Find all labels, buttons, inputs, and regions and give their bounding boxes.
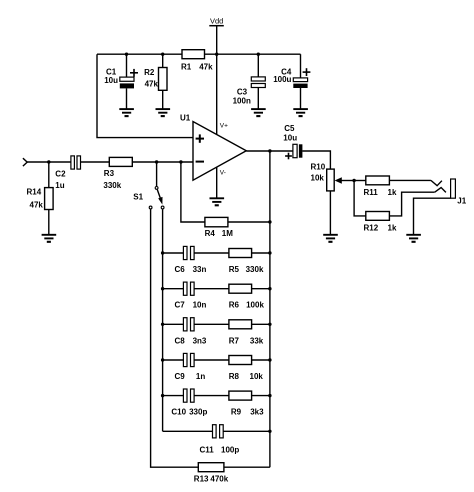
resistor R1 (181, 50, 213, 72)
resistor R5 (229, 249, 264, 275)
wire C5 to R10 top (302, 151, 330, 169)
resistor R2 (144, 54, 167, 108)
svg-text:1k: 1k (388, 223, 397, 232)
svg-text:R12: R12 (364, 223, 379, 232)
svg-text:C9: C9 (175, 372, 186, 381)
node left rail row2 (161, 287, 164, 290)
wire R13 to right rail (224, 466, 270, 468)
wire row2 mid (194, 288, 229, 290)
wire inverting input to R4 (181, 162, 205, 222)
svg-text:C3: C3 (237, 87, 248, 96)
wire row4 left (163, 359, 184, 361)
svg-text:R10: R10 (311, 163, 326, 172)
svg-text:C5: C5 (284, 124, 295, 133)
wire wiper down to R12 (354, 181, 366, 216)
wire row3 mid (194, 323, 229, 325)
wire row2 left (163, 288, 184, 290)
svg-text:100u: 100u (273, 75, 291, 84)
svg-text:10u: 10u (283, 134, 297, 143)
node right rail row4 (268, 358, 271, 361)
resistor R8 (229, 356, 264, 382)
svg-text:R3: R3 (104, 169, 115, 178)
svg-text:33n: 33n (193, 265, 207, 274)
resistor R3 (103, 157, 132, 190)
ground (R10) (323, 235, 338, 242)
node right rail row5 (268, 394, 271, 397)
ground (C1) (119, 109, 134, 116)
power Vdd terminal (209, 17, 224, 135)
svg-text:C8: C8 (175, 336, 186, 345)
wire row1 left (163, 252, 184, 254)
capacitor C5 (283, 124, 302, 159)
wire wiper to R11 (354, 180, 366, 182)
capacitor C1 (104, 54, 138, 108)
svg-text:U1: U1 (180, 113, 191, 122)
node R4/right rail junction (268, 220, 271, 223)
wire S1 left throw rail (151, 209, 199, 467)
svg-text:47k: 47k (145, 80, 159, 89)
svg-text:R9: R9 (231, 408, 242, 417)
svg-text:R6: R6 (229, 301, 240, 310)
input terminal arrow (23, 158, 27, 166)
svg-text:330k: 330k (103, 181, 121, 190)
wire row2 right (252, 288, 270, 290)
capacitor C9 (175, 353, 206, 381)
svg-text:R1: R1 (181, 62, 192, 71)
resistor R12 (364, 212, 397, 233)
svg-text:100k: 100k (246, 301, 264, 310)
svg-text:1M: 1M (222, 229, 233, 238)
svg-text:10n: 10n (193, 301, 207, 310)
node output/right rail junction (268, 149, 271, 152)
wire U1 output to C5 (246, 150, 292, 152)
svg-text:C10: C10 (171, 408, 186, 417)
wire bias network drop to non-inverting input (97, 54, 193, 137)
capacitor C6 (175, 246, 207, 274)
resistor R9 (229, 391, 264, 417)
resistor R7 (229, 320, 264, 346)
node left rail row4 (161, 358, 164, 361)
ground (R2) (156, 109, 171, 116)
wire R12 to J1 ring (389, 192, 434, 216)
svg-text:3n3: 3n3 (193, 336, 207, 345)
wire row1 mid (194, 252, 229, 254)
node right rail row1 (268, 251, 271, 254)
capacitor C2 (55, 156, 80, 190)
capacitor C3 (233, 54, 266, 108)
node right rail row2 (268, 287, 271, 290)
node left rail row3 (161, 323, 164, 326)
wire row4 right (252, 359, 270, 361)
node left rail row1 (161, 251, 164, 254)
wire R11 to J1 tip (389, 179, 431, 181)
wire input line to C2 (27, 161, 70, 163)
svg-text:Vdd: Vdd (210, 17, 223, 26)
wire bias rail right segment (205, 53, 301, 55)
node R10 wiper junction (352, 179, 355, 182)
node inverting input/R4 junction (179, 160, 182, 163)
svg-text:100p: 100p (221, 445, 239, 454)
capacitor C7 (175, 282, 207, 310)
svg-text:S1: S1 (133, 193, 143, 202)
svg-text:330p: 330p (189, 408, 207, 417)
wire S1 right throw rail (162, 209, 164, 431)
svg-text:C2: C2 (55, 169, 66, 178)
svg-text:470k: 470k (210, 474, 228, 483)
svg-text:47k: 47k (30, 200, 44, 209)
wire row3 left (163, 323, 184, 325)
svg-text:1n: 1n (196, 372, 205, 381)
node input/S1 junction (155, 160, 158, 163)
capacitor C11 (200, 425, 240, 455)
wire row3 right (252, 323, 270, 325)
svg-text:V+: V+ (220, 123, 228, 130)
node C3/rail junction (257, 53, 260, 56)
svg-text:47k: 47k (199, 62, 213, 71)
node Vdd/rail junction (215, 53, 218, 56)
potentiometer R10 (311, 163, 355, 235)
ground (R14) (42, 235, 57, 242)
connector J1 (431, 179, 467, 206)
svg-text:10u: 10u (104, 76, 118, 85)
svg-text:R14: R14 (27, 187, 42, 196)
svg-text:C6: C6 (175, 265, 186, 274)
resistor R11 (364, 176, 397, 197)
svg-text:R13: R13 (194, 474, 209, 483)
wire row5 right (252, 395, 270, 397)
wire U1 V- pin to ground (216, 167, 218, 198)
svg-text:R11: R11 (364, 188, 379, 197)
svg-text:C11: C11 (200, 445, 215, 454)
wire J1 sleeve to ground (414, 198, 451, 234)
svg-text:J1: J1 (457, 197, 466, 206)
resistor R14 (27, 162, 54, 234)
node C11/right rail junction (268, 430, 271, 433)
op-amp U1 (180, 113, 246, 180)
ground (J1) (406, 235, 421, 242)
capacitor C4 (273, 54, 310, 108)
resistor R13 (194, 463, 229, 484)
ground (C4) (293, 109, 308, 116)
wire bias rail left segment (97, 53, 182, 55)
wire C2 to R3 (81, 161, 110, 163)
svg-text:10k: 10k (250, 372, 264, 381)
resistor R6 (229, 284, 265, 310)
svg-text:R8: R8 (229, 372, 240, 381)
wire row1 right (252, 252, 270, 254)
svg-text:C7: C7 (175, 301, 186, 310)
node R2/rail junction (161, 53, 164, 56)
node C1/rail junction (125, 53, 128, 56)
node input/R14 junction (47, 160, 50, 163)
svg-text:R4: R4 (205, 229, 216, 238)
capacitor C8 (175, 318, 207, 346)
ground (C3) (251, 109, 266, 116)
wire R4 to right rail (228, 221, 270, 223)
wire C11 row left (163, 430, 213, 432)
svg-text:330k: 330k (246, 265, 264, 274)
svg-text:33k: 33k (250, 336, 264, 345)
svg-text:1u: 1u (55, 181, 64, 190)
wire row5 mid (194, 395, 229, 397)
svg-text:R5: R5 (229, 265, 240, 274)
wire row4 mid (194, 359, 229, 361)
svg-text:R2: R2 (144, 68, 155, 77)
wire row5 left (163, 395, 184, 397)
svg-text:1k: 1k (388, 188, 397, 197)
svg-text:10k: 10k (311, 174, 325, 183)
switch S1 (133, 162, 164, 209)
wire right feedback rail (269, 151, 271, 467)
svg-text:V-: V- (220, 170, 226, 177)
ground (U1 V-) (210, 198, 225, 205)
resistor R4 (205, 217, 234, 238)
svg-text:3k3: 3k3 (250, 408, 264, 417)
wire R3 to U1 inverting input (132, 161, 193, 163)
node right rail row3 (268, 323, 271, 326)
wire C11 row right (223, 430, 270, 432)
node left rail row5 (161, 394, 164, 397)
svg-text:R7: R7 (229, 336, 240, 345)
svg-text:100n: 100n (233, 97, 251, 106)
capacitor C10 (171, 389, 207, 417)
